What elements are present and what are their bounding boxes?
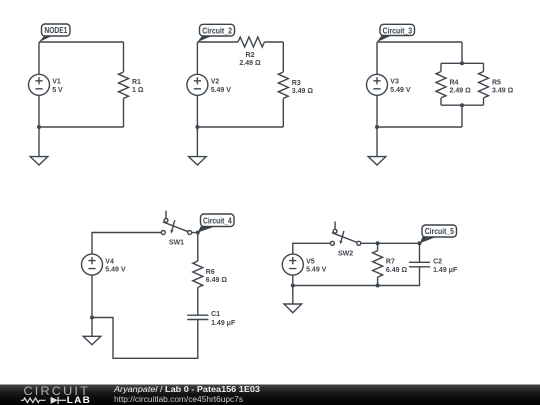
- svg-text:3.49 Ω: 3.49 Ω: [492, 87, 514, 94]
- node Circuit_4: [198, 214, 234, 233]
- voltage source V4: [82, 254, 103, 275]
- capacitor C1: [187, 315, 208, 319]
- voltage source V3: [367, 74, 388, 95]
- junction c3 mid-bottom: [460, 103, 464, 107]
- svg-text:Circuit_3: Circuit_3: [383, 26, 413, 35]
- junction c1 bottom: [37, 125, 41, 129]
- wire left upper c2: [196, 42, 198, 74]
- junction R7 bottom: [376, 284, 380, 288]
- svg-text:V5: V5: [306, 258, 315, 265]
- wire left upper c3: [376, 42, 378, 74]
- ground c4: [83, 318, 101, 345]
- svg-text:5.49 V: 5.49 V: [306, 267, 327, 274]
- wire V4 bottom lead: [91, 275, 93, 317]
- wire bottom c3: [377, 126, 462, 128]
- wire R5 bottom lead: [483, 98, 485, 105]
- wire R6 to C1: [197, 287, 199, 315]
- svg-text:1.49 μF: 1.49 μF: [211, 320, 236, 327]
- voltage source V2: [187, 74, 208, 95]
- svg-text:6.49 Ω: 6.49 Ω: [386, 267, 408, 274]
- wire left lower c3: [376, 95, 378, 127]
- svg-text:R1: R1: [132, 79, 141, 86]
- svg-text:Circuit_2: Circuit_2: [202, 26, 232, 35]
- svg-text:C2: C2: [433, 259, 442, 266]
- junction c3 top: [460, 61, 464, 65]
- wire bottom c2: [197, 126, 283, 128]
- footer bar: [0, 385, 540, 405]
- wire parallel top bracket: [441, 62, 484, 64]
- svg-text:5.49 V: 5.49 V: [211, 87, 232, 94]
- wire parallel bottom bracket: [441, 104, 484, 106]
- resistor R4: [436, 72, 446, 98]
- svg-text:5.49 V: 5.49 V: [105, 267, 126, 274]
- wire top-left c2: [197, 41, 238, 43]
- resistor R7: [373, 251, 383, 277]
- svg-text:3.49 Ω: 3.49 Ω: [292, 88, 314, 95]
- wire C1 bottom lead: [92, 318, 198, 359]
- wire left upper c1: [38, 42, 40, 74]
- wire C2 bottom lead: [293, 267, 420, 286]
- svg-text:http://circuitlab.com/ce45hrt6: http://circuitlab.com/ce45hrt6upc7s: [114, 395, 243, 404]
- svg-text:Aryanpatel / Lab 0 - Patea156: Aryanpatel / Lab 0 - Patea156 1E03: [113, 385, 261, 394]
- junction c4 node: [196, 231, 200, 235]
- switch SW1: [161, 211, 191, 235]
- wire right lower c3: [461, 105, 463, 127]
- svg-text:SW1: SW1: [169, 240, 184, 247]
- wire R7 bottom lead: [377, 277, 379, 285]
- wire V4 top lead: [92, 233, 161, 255]
- svg-text:R2: R2: [246, 52, 255, 59]
- wire right lower c2: [282, 98, 284, 127]
- junction c3 bottom: [375, 125, 379, 129]
- svg-text:6.49 Ω: 6.49 Ω: [206, 277, 228, 284]
- voltage source V1: [29, 74, 50, 95]
- svg-text:5 V: 5 V: [52, 87, 63, 94]
- resistor R2: [238, 37, 264, 47]
- wire V5 bottom lead: [292, 275, 294, 285]
- voltage source V5: [282, 254, 303, 275]
- svg-text:V4: V4: [105, 258, 114, 265]
- ground c5: [284, 286, 302, 313]
- junction R7 top: [376, 241, 380, 245]
- wire top-right c2: [264, 41, 283, 43]
- svg-text:R5: R5: [492, 79, 501, 86]
- svg-text:1 Ω: 1 Ω: [132, 87, 144, 94]
- wire left lower c2: [196, 95, 198, 127]
- wire V5 top lead: [293, 243, 331, 254]
- wire R4 bottom lead: [440, 98, 442, 105]
- ground c2: [189, 127, 207, 165]
- wire left lower c1: [38, 95, 40, 127]
- switch SW2: [330, 222, 360, 246]
- wire switch to node c4: [192, 232, 198, 234]
- ground c3: [368, 127, 386, 165]
- svg-text:V3: V3: [390, 79, 399, 86]
- resistor R5: [479, 72, 489, 98]
- svg-text:NODE1: NODE1: [44, 26, 67, 35]
- wire top c1: [39, 41, 124, 43]
- svg-text:2.49 Ω: 2.49 Ω: [450, 87, 472, 94]
- svg-text:1.49 μF: 1.49 μF: [433, 267, 458, 274]
- svg-text:R6: R6: [206, 269, 215, 276]
- wire right lower c1: [123, 98, 125, 127]
- junction c5 bottom: [291, 284, 295, 288]
- capacitor C2: [409, 262, 430, 267]
- svg-text:R4: R4: [450, 79, 459, 86]
- resistor R1: [119, 72, 129, 98]
- svg-text:SW2: SW2: [338, 251, 353, 258]
- wire R7 top lead: [377, 243, 379, 250]
- svg-text:Circuit_4: Circuit_4: [203, 217, 232, 226]
- resistor R3: [278, 72, 288, 98]
- logo diode: [51, 397, 66, 404]
- ground c1: [30, 127, 48, 165]
- wire R5 top lead: [483, 63, 485, 71]
- wire right upper c1: [123, 42, 125, 72]
- node Circuit_3: [377, 24, 415, 42]
- junction c2 bottom: [195, 125, 199, 129]
- svg-text:R3: R3: [292, 80, 301, 87]
- svg-text:LAB: LAB: [67, 395, 91, 405]
- resistor R6: [193, 261, 203, 287]
- svg-text:C1: C1: [211, 311, 220, 318]
- wire node to R6: [197, 233, 199, 262]
- svg-text:R7: R7: [386, 259, 395, 266]
- node Circuit_5: [420, 225, 457, 243]
- svg-text:Circuit_5: Circuit_5: [425, 227, 455, 236]
- wire right upper c2: [282, 42, 284, 72]
- svg-text:V2: V2: [211, 79, 220, 86]
- wire R4 top lead: [440, 63, 442, 71]
- svg-text:2.49 Ω: 2.49 Ω: [239, 60, 261, 67]
- node Circuit_2: [197, 24, 234, 42]
- svg-text:5.49 V: 5.49 V: [390, 87, 411, 94]
- svg-text:V1: V1: [52, 79, 61, 86]
- wire top c3: [377, 41, 462, 43]
- junction c4 bottom: [90, 316, 94, 320]
- junction C2 top: [418, 241, 422, 245]
- wire switch to R7 node: [361, 242, 420, 244]
- logo resistor squiggle: [21, 398, 46, 403]
- node NODE1: [39, 24, 70, 42]
- wire C2 top lead: [419, 243, 421, 262]
- wire right upper c3: [461, 42, 463, 63]
- wire bottom c1: [39, 126, 124, 128]
